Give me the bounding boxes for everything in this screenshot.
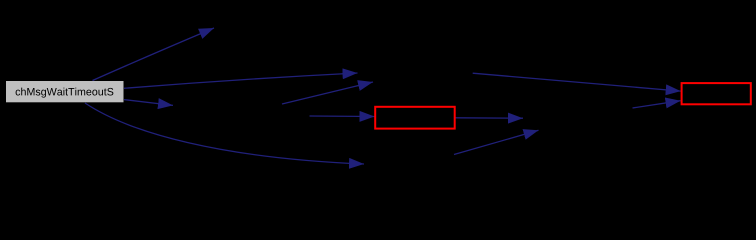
node chMsgWaitTimeoutS (current, grey): [6, 81, 124, 102]
edge: hidden node to hidden node above middle red box: [282, 82, 373, 104]
edge: chMsgWaitTimeoutS to near hidden node: [124, 100, 173, 106]
edge: bottom hidden node to hidden node: [454, 130, 539, 154]
node: right red-bordered box (truncated graph): [682, 83, 751, 104]
edge: hidden node to right red box lower: [633, 101, 681, 108]
edge: chMsgWaitTimeoutS curved to bottom hidden node: [85, 103, 364, 164]
edge: chMsgWaitTimeoutS to top hidden node: [93, 28, 215, 81]
edge: middle red box to hidden node right: [455, 117, 523, 119]
edge: hidden node to right red box upper: [473, 73, 681, 91]
edge: hidden node to middle red box: [310, 115, 375, 118]
node: middle red-bordered box (truncated graph): [375, 107, 455, 129]
edge: chMsgWaitTimeoutS to upper-middle hidden node: [124, 73, 358, 88]
